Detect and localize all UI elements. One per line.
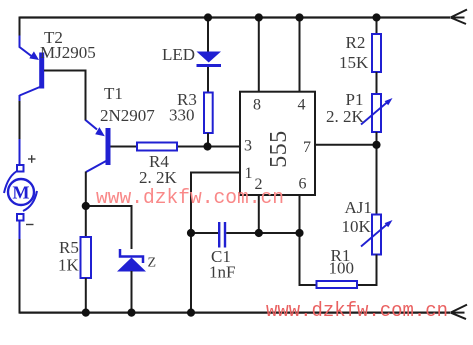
wire R5 to ground rail <box>85 278 87 313</box>
label 2.2K (R4) <box>139 168 178 187</box>
wire pin 1 down to C1 line <box>191 173 240 234</box>
wire R2 to P1 <box>376 72 378 94</box>
svg-text:555: 555 <box>266 130 292 168</box>
label 1K <box>58 256 80 275</box>
svg-text:R5: R5 <box>59 238 79 257</box>
svg-text:330: 330 <box>169 106 195 125</box>
label T1 <box>104 84 123 103</box>
wire R3 to pin3 node <box>207 133 209 147</box>
wire left rail collector-to-motor (blue) <box>19 95 21 102</box>
supply connector arrow top right <box>451 10 468 25</box>
capacitor C1 <box>218 222 226 248</box>
label R5 <box>59 238 79 257</box>
pin 3 label <box>244 138 252 155</box>
wire left rail bottom (black) <box>19 238 21 314</box>
wire to motor plus terminal (blue) <box>19 139 21 166</box>
node ground / pin1 drop <box>187 309 195 317</box>
label C1 <box>211 247 231 266</box>
svg-text:1: 1 <box>245 165 253 182</box>
svg-text:1K: 1K <box>58 256 80 275</box>
svg-text:1nF: 1nF <box>209 263 235 282</box>
svg-text:4: 4 <box>298 97 306 114</box>
transistor T2 <box>20 36 45 96</box>
node top rail / pin 8 <box>255 13 263 21</box>
potentiometer AJ1 <box>361 215 393 255</box>
resistor R5 <box>81 237 92 278</box>
label AJ1 <box>345 198 372 217</box>
resistor R2 <box>372 34 381 72</box>
resistor R4 <box>137 143 177 151</box>
svg-text:3: 3 <box>244 138 252 155</box>
wire top supply rail <box>20 16 451 18</box>
svg-text:8: 8 <box>253 97 261 114</box>
label motor plus <box>28 155 36 163</box>
wire pin 6 down to R1 <box>300 195 317 285</box>
svg-text:7: 7 <box>303 139 311 156</box>
svg-text:Z: Z <box>148 256 157 271</box>
wire T1 base to pin3 <box>111 146 241 148</box>
transistor T1 <box>86 127 111 172</box>
label 10K <box>342 217 372 236</box>
wire C1 left segment <box>191 232 218 234</box>
label 330 <box>169 106 195 125</box>
label MJ2905 <box>40 43 96 62</box>
resistor R3 <box>204 93 213 134</box>
svg-text:100: 100 <box>329 259 355 278</box>
ground connector arrow bottom right <box>451 305 468 320</box>
svg-text:M: M <box>13 183 30 203</box>
wire motor minus lead (blue) <box>19 220 21 239</box>
pin 4 label <box>298 97 306 114</box>
svg-text:2N2907: 2N2907 <box>100 106 155 125</box>
node pin 1 / C1 <box>187 229 195 237</box>
label R4 <box>149 152 169 171</box>
wire T1 collector down <box>85 172 87 207</box>
zener diode Z <box>117 249 146 272</box>
label P1 <box>346 90 364 109</box>
svg-text:15K: 15K <box>339 53 369 72</box>
svg-text:AJ1: AJ1 <box>345 198 372 217</box>
node ground / R5 <box>82 309 90 317</box>
svg-text:www.dzkfw.com.cn: www.dzkfw.com.cn <box>266 300 448 323</box>
node top rail / R2 <box>372 13 380 21</box>
label R3 <box>177 90 197 109</box>
IC U1 555 box <box>240 92 315 195</box>
watermark bottom <box>266 300 448 323</box>
node T1 collector / R5 / zener <box>82 202 90 210</box>
svg-text:R2: R2 <box>346 33 366 52</box>
label 2.2K (P1) <box>326 107 365 126</box>
potentiometer P1 <box>361 94 393 132</box>
pin 2 label <box>255 176 263 193</box>
pin 8 label <box>253 97 261 114</box>
wire pin 7 to P1/AJ1 node <box>315 144 377 146</box>
label Z <box>148 256 157 271</box>
label 15K <box>339 53 369 72</box>
node top rail / LED <box>204 13 212 21</box>
motor M <box>4 165 37 221</box>
svg-text:6: 6 <box>299 176 307 193</box>
label 555 <box>266 130 292 168</box>
wire C1 right segment <box>226 232 299 234</box>
resistor R1 <box>317 281 358 288</box>
wire T1 collector node to R5 <box>85 206 87 237</box>
wire pin 4 to rail <box>299 17 301 92</box>
wire LED branch from rail <box>207 17 209 52</box>
pin 6 label <box>299 176 307 193</box>
pin 1 label <box>245 165 253 182</box>
node pin 6 / C1 <box>295 229 303 237</box>
wire pin1 node to ground rail <box>190 233 192 313</box>
svg-text:MJ2905: MJ2905 <box>40 43 96 62</box>
svg-text:www.dzkfw.com.cn: www.dzkfw.com.cn <box>96 187 284 210</box>
wire P1 to AJ1 <box>376 132 378 215</box>
label R2 <box>346 33 366 52</box>
node pin 2 / C1 <box>255 229 263 237</box>
wire pin 8 to rail <box>258 17 260 92</box>
node R3 / pin 3 <box>203 142 211 150</box>
wire LED to R3 <box>207 67 209 93</box>
label 1nF <box>209 263 235 282</box>
wire pin 2 down <box>258 195 260 233</box>
label R1 <box>331 246 351 265</box>
svg-text:T1: T1 <box>104 84 123 103</box>
label LED <box>162 45 195 64</box>
svg-text:2. 2K: 2. 2K <box>139 168 178 187</box>
svg-text:10K: 10K <box>342 217 372 236</box>
node pin 7 / P1 / AJ1 <box>372 141 380 149</box>
node ground / zener <box>127 309 135 317</box>
watermark middle <box>96 187 284 210</box>
wire AJ1 down to R1 <box>357 255 377 286</box>
label T2 <box>44 28 63 47</box>
label 100 <box>329 259 355 278</box>
wire node to zener <box>86 206 132 249</box>
label 2N2907 <box>100 106 155 125</box>
wire left rail mid (black) <box>19 101 21 140</box>
svg-text:2. 2K: 2. 2K <box>326 107 365 126</box>
node top rail / pin 4 <box>295 13 303 21</box>
wire zener to ground rail <box>131 271 133 313</box>
LED diode <box>197 52 222 68</box>
wire left rail top (black) <box>19 17 21 37</box>
wire T2 base to T1 emitter <box>44 71 97 130</box>
wire R2 top <box>376 17 378 34</box>
pin 7 label <box>303 139 311 156</box>
wire bottom ground rail <box>20 312 451 314</box>
svg-text:LED: LED <box>162 45 195 64</box>
label motor minus <box>26 224 34 226</box>
